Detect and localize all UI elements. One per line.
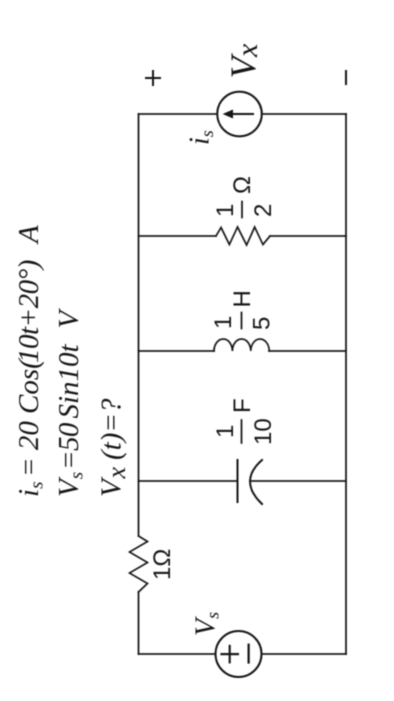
svg-text:1: 1 <box>212 204 239 217</box>
svg-text:=50: =50 <box>53 422 85 470</box>
svg-text:1: 1 <box>210 316 237 329</box>
svg-text:1: 1 <box>212 425 239 438</box>
plus terminal of Vx <box>146 71 160 85</box>
resistor R 1ohm (top wire) <box>130 536 148 592</box>
resistor R 1/2 ohm zigzag <box>216 227 270 245</box>
wire right below is <box>262 113 346 115</box>
svg-text:Sin10t: Sin10t <box>53 343 85 418</box>
svg-text:x: x <box>102 467 131 480</box>
Vs minus sign <box>248 645 250 663</box>
svg-text:Cos(: Cos( <box>13 357 45 414</box>
svg-text:F: F <box>229 398 256 413</box>
capacitor branch wire upper <box>139 480 238 482</box>
svg-text:(t)=?: (t)=? <box>96 398 128 460</box>
inductor branch wire upper <box>139 350 215 352</box>
svg-text:Ω: Ω <box>229 176 256 194</box>
svg-text:10t+20°): 10t+20°) <box>13 260 45 363</box>
resistor branch wire upper <box>139 235 217 237</box>
inductor L 1/5 H coils <box>214 339 269 351</box>
current source arrow <box>228 113 253 115</box>
wire bottom <box>345 114 347 654</box>
svg-text:A: A <box>13 225 45 245</box>
current source is circle <box>217 92 262 137</box>
capacitor branch wire lower <box>250 480 346 482</box>
minus terminal of Vx <box>345 71 347 84</box>
svg-text:H: H <box>229 290 256 307</box>
wire right above is <box>139 113 218 115</box>
resistor branch wire lower <box>270 235 346 237</box>
svg-text:2: 2 <box>250 204 277 217</box>
svg-text:1Ω: 1Ω <box>149 549 176 580</box>
wire top-left segment <box>138 592 140 654</box>
svg-text:= 20: = 20 <box>13 421 45 477</box>
wire left below Vs <box>262 653 347 655</box>
svg-text:10: 10 <box>250 418 277 445</box>
svg-text:x: x <box>231 43 264 58</box>
voltage source Vs circle <box>216 631 262 677</box>
wire left above Vs <box>139 653 216 655</box>
wire top-right segment <box>138 114 140 536</box>
capacitor curved plate <box>250 460 262 504</box>
Vs plus sign <box>222 646 238 662</box>
inductor branch wire lower <box>269 350 346 352</box>
svg-text:5: 5 <box>249 317 276 330</box>
capacitor C 1/10 F straight plate <box>237 460 239 502</box>
